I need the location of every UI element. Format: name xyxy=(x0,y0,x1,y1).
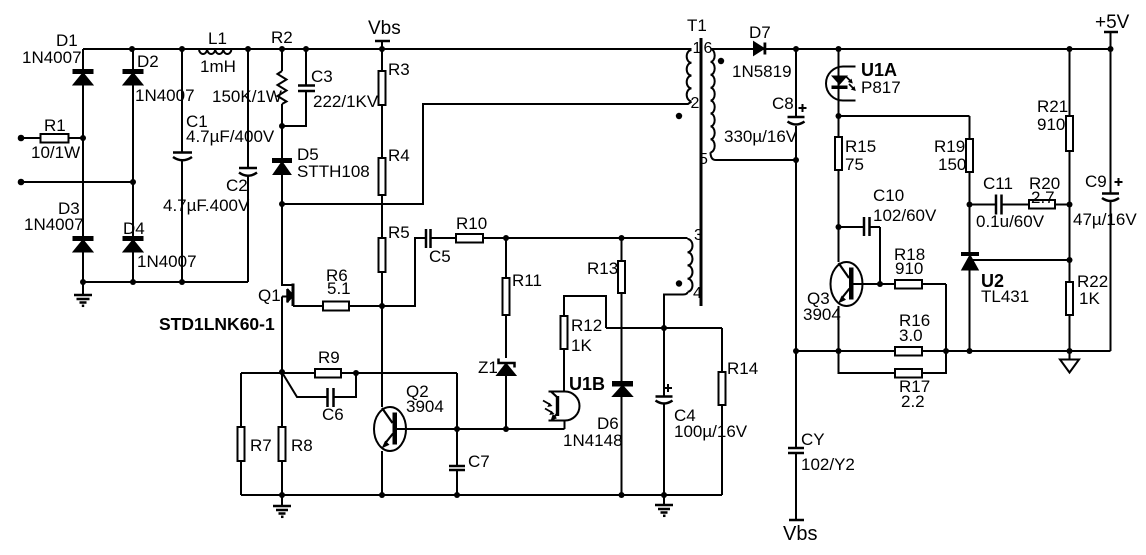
svg-text:R14: R14 xyxy=(727,359,758,378)
wire ground bus xyxy=(241,494,722,496)
svg-text:150K/1W: 150K/1W xyxy=(212,87,282,106)
svg-text:10/1W: 10/1W xyxy=(31,143,80,162)
svg-text:C3: C3 xyxy=(311,67,333,86)
resistor R19 150 xyxy=(966,139,973,205)
capacitor CY 102/Y2 xyxy=(788,351,804,520)
resistor R22 1K xyxy=(1066,205,1073,352)
svg-text:C10: C10 xyxy=(873,186,904,205)
wire top rail left (bridge to T1 pin1) xyxy=(83,48,692,50)
wire U2 cathode tap xyxy=(970,259,1070,261)
resistor R15 75 xyxy=(835,116,842,227)
svg-text:STTH108: STTH108 xyxy=(297,162,370,181)
svg-text:+5V: +5V xyxy=(1095,12,1130,33)
resistor R12 1K xyxy=(561,296,607,392)
capacitor C2 4.7uF/400V xyxy=(239,168,257,176)
capacitor C7 xyxy=(449,429,465,495)
svg-text:5: 5 xyxy=(699,151,708,168)
svg-text:3904: 3904 xyxy=(803,305,841,324)
diode D2 1N4007 xyxy=(124,70,143,85)
svg-text:1N4007: 1N4007 xyxy=(24,215,84,234)
svg-text:R4: R4 xyxy=(388,146,410,165)
transformer T1 core xyxy=(700,38,703,306)
svg-text:3904: 3904 xyxy=(406,397,444,416)
capacitor C5 xyxy=(426,229,456,248)
resistor R5 xyxy=(379,238,386,272)
svg-text:1N4007: 1N4007 xyxy=(135,86,195,105)
svg-text:2: 2 xyxy=(691,95,700,112)
wire output return column xyxy=(795,160,797,351)
diode D1 1N4007 xyxy=(74,70,93,85)
svg-text:1K: 1K xyxy=(571,336,592,355)
capacitor C4 100u/16V xyxy=(656,328,673,495)
wire gate node R9 row xyxy=(241,373,457,429)
capacitor C6 xyxy=(283,373,356,407)
svg-text:Vbs: Vbs xyxy=(783,523,817,545)
wire Vbs divider column R3 R4 R5 xyxy=(381,49,383,306)
svg-text:0.1u/60V: 0.1u/60V xyxy=(976,212,1045,231)
wire right +5V rail (T1 pin6 to +5V) xyxy=(711,48,1114,50)
wire D2 branch xyxy=(132,49,134,282)
svg-text:Q1: Q1 xyxy=(258,286,281,305)
diode D6 1N4148 xyxy=(613,382,632,495)
wire AC input 2 xyxy=(21,181,133,183)
svg-text:D2: D2 xyxy=(137,52,159,71)
svg-text:2.2: 2.2 xyxy=(901,392,925,411)
transformer T1 aux phase dot xyxy=(676,280,682,286)
svg-text:C6: C6 xyxy=(322,405,344,424)
diode D7 1N5819 xyxy=(754,43,766,55)
svg-text:1K: 1K xyxy=(1079,289,1100,308)
svg-text:222/1KV: 222/1KV xyxy=(313,92,379,111)
svg-text:910: 910 xyxy=(1037,115,1065,134)
svg-text:102/60V: 102/60V xyxy=(873,206,937,225)
svg-text:C2: C2 xyxy=(226,176,248,195)
resistor R18 910 xyxy=(880,280,946,351)
svg-text:75: 75 xyxy=(845,155,864,174)
transformer T1 secondary winding pins 6-5 xyxy=(711,49,715,152)
svg-text:D4: D4 xyxy=(123,219,145,238)
svg-text:3: 3 xyxy=(694,227,703,244)
svg-text:U1B: U1B xyxy=(569,374,605,394)
capacitor C9 47u/16V xyxy=(1102,49,1123,351)
capacitor C3 222/1KV xyxy=(298,86,315,92)
transistor Q1 STD1LNK60-1 mosfet xyxy=(282,204,323,306)
transformer T1 secondary phase dot xyxy=(718,58,724,64)
svg-text:150: 150 xyxy=(938,155,966,174)
ground bridge xyxy=(74,282,92,306)
svg-text:C8: C8 xyxy=(772,94,794,113)
wire base node line xyxy=(457,428,565,430)
svg-text:R10: R10 xyxy=(456,214,487,233)
wire C1 branch xyxy=(181,49,183,282)
svg-text:R3: R3 xyxy=(388,60,410,79)
capacitor C8 330u/16V xyxy=(788,49,807,160)
svg-text:R15: R15 xyxy=(845,137,876,156)
svg-text:R5: R5 xyxy=(388,223,410,242)
svg-text:3.0: 3.0 xyxy=(899,326,923,345)
svg-text:4.7µF.400V: 4.7µF.400V xyxy=(163,196,250,215)
svg-text:D7: D7 xyxy=(749,23,771,42)
svg-text:Vbs: Vbs xyxy=(368,18,401,39)
resistor R4 xyxy=(379,158,386,195)
wire aux output node y328 xyxy=(606,327,722,329)
wire C5 left leg xyxy=(382,238,426,306)
wire sense line y351 xyxy=(796,350,1111,352)
node +5V terminal xyxy=(1104,32,1118,49)
resistor R10 xyxy=(456,234,506,243)
resistor R3 xyxy=(379,71,386,105)
inductor L1 1mH xyxy=(199,49,231,54)
ground under R8 xyxy=(273,495,291,517)
svg-text:C5: C5 xyxy=(429,247,451,266)
svg-text:1N4007: 1N4007 xyxy=(22,48,82,67)
svg-text:6: 6 xyxy=(704,40,713,57)
resistor R21 910 xyxy=(1066,49,1073,205)
resistor R20 2.7 xyxy=(1029,200,1070,209)
resistor R8 xyxy=(279,372,286,495)
svg-text:1N5819: 1N5819 xyxy=(732,62,792,81)
svg-text:1: 1 xyxy=(693,40,702,57)
svg-text:R8: R8 xyxy=(291,436,313,455)
resistor R9 xyxy=(315,369,341,378)
wire opto node to R19 xyxy=(839,116,970,139)
transistor Q2 3904 xyxy=(374,306,457,495)
resistor R13 xyxy=(618,238,625,382)
svg-text:R1: R1 xyxy=(44,116,66,135)
opto LED U1A P817 xyxy=(826,49,856,116)
svg-text:910: 910 xyxy=(895,259,923,278)
resistor R6 5.1 xyxy=(323,302,382,311)
svg-text:STD1LNK60-1: STD1LNK60-1 xyxy=(159,314,275,334)
wire D1 branch xyxy=(82,49,84,282)
svg-text:1mH: 1mH xyxy=(200,57,236,76)
svg-text:U1A: U1A xyxy=(861,60,897,80)
wire T1 pin5 to C8 xyxy=(711,152,797,160)
diode D4 1N4007 xyxy=(124,237,143,252)
svg-text:47µ/16V: 47µ/16V xyxy=(1073,210,1137,229)
resistor R7 xyxy=(238,373,245,495)
resistor R1 xyxy=(41,134,84,143)
capacitor C11 0.1u/60V xyxy=(970,195,1030,215)
wire bottom bus of bridge xyxy=(83,281,248,283)
svg-text:1N4148: 1N4148 xyxy=(563,431,623,450)
svg-text:R12: R12 xyxy=(571,316,602,335)
svg-text:CY: CY xyxy=(801,430,825,449)
svg-text:5.1: 5.1 xyxy=(327,279,351,298)
svg-text:TL431: TL431 xyxy=(981,287,1029,306)
resistor R17 2.2 loop xyxy=(839,351,947,378)
svg-text:P817: P817 xyxy=(861,78,901,97)
svg-text:R21: R21 xyxy=(1037,97,1068,116)
transformer T1 primary winding pins 1-2 xyxy=(687,50,692,101)
svg-text:102/Y2: 102/Y2 xyxy=(801,455,855,474)
svg-text:1N4007: 1N4007 xyxy=(137,252,197,271)
ground output xyxy=(655,495,673,516)
svg-text:100µ/16V: 100µ/16V xyxy=(674,422,748,441)
svg-text:2.7: 2.7 xyxy=(1031,188,1055,207)
resistor R14 xyxy=(719,328,726,495)
resistor R16 3.0 xyxy=(895,347,922,356)
transformer T1 primary phase dot xyxy=(676,113,682,119)
svg-text:R11: R11 xyxy=(512,271,542,290)
svg-text:T1: T1 xyxy=(687,16,707,35)
svg-text:R9: R9 xyxy=(318,348,340,367)
zener Z1 xyxy=(498,359,516,430)
svg-text:C11: C11 xyxy=(983,174,1013,193)
resistor R2 150K/1W zigzag xyxy=(278,71,287,104)
wire Q1 gate down xyxy=(281,297,283,373)
wire AC input 1 xyxy=(21,137,40,139)
node Vbs terminal xyxy=(375,41,390,49)
svg-text:R19: R19 xyxy=(934,137,965,156)
capacitor C10 102/60V xyxy=(839,217,881,284)
capacitor C1 4.7uF/400V xyxy=(173,153,192,161)
wire R2 branch xyxy=(281,49,283,126)
resistor R11 xyxy=(503,238,510,358)
transformer T1 aux winding pins 3-4 xyxy=(688,239,693,292)
diode D5 STTH108 xyxy=(273,126,291,204)
wire drain node to T1 pin2 xyxy=(282,102,692,205)
ground triangle xyxy=(1060,351,1079,373)
wire C2 branch xyxy=(247,49,249,282)
svg-text:Z1: Z1 xyxy=(478,358,498,377)
svg-text:C7: C7 xyxy=(468,452,490,471)
svg-text:330µ/16V: 330µ/16V xyxy=(724,127,798,146)
svg-text:R7: R7 xyxy=(250,436,272,455)
opto transistor U1B xyxy=(543,392,580,430)
diode D3 1N4007 xyxy=(74,237,93,252)
svg-text:R2: R2 xyxy=(271,28,293,47)
svg-text:L1: L1 xyxy=(208,29,227,48)
wire C3 branch xyxy=(282,49,306,126)
shunt U2 TL431 xyxy=(961,205,979,352)
svg-text:C9: C9 xyxy=(1085,172,1107,191)
svg-text:R13: R13 xyxy=(587,259,618,278)
svg-text:4: 4 xyxy=(693,285,702,302)
svg-text:4.7µF/400V: 4.7µF/400V xyxy=(186,127,275,146)
wire T1 pin4 leg xyxy=(664,292,688,328)
wire R10 node to T1 pin3 xyxy=(506,237,688,239)
transistor Q3 3904 xyxy=(831,227,881,351)
